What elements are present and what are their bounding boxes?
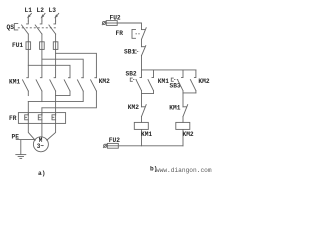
wire phase3 tee to KM2 pole3: [56, 50, 97, 78]
svg-text:QS: QS: [7, 24, 15, 31]
ground symbol: [16, 155, 26, 159]
terminal arrow L1: [27, 13, 31, 21]
wire phase1 tee to KM2 pole1: [28, 50, 70, 78]
terminal top: [102, 21, 106, 25]
KM2 main pole 1: [56, 78, 70, 96]
bottom rail wire: [118, 145, 183, 147]
QS pole 3: [49, 21, 56, 42]
wire phase2 down to FR: [41, 108, 43, 115]
SB2 NO contact: [136, 70, 142, 94]
coil KM1: [134, 122, 148, 145]
FR heater 1: [25, 113, 29, 123]
svg-text:3~: 3~: [37, 143, 45, 150]
QS handle bracket: [14, 24, 17, 30]
FR trip element: [132, 29, 136, 38]
wire phase3 down to FR: [55, 96, 57, 116]
KM2 NC interlock contact: [142, 105, 147, 123]
svg-text:FU1: FU1: [12, 42, 23, 49]
wire FR to motor right: [47, 123, 56, 140]
QS pole 2: [35, 21, 42, 42]
SB1 NC contact: [142, 46, 146, 70]
coil KM2: [176, 122, 190, 145]
svg-text:KM2: KM2: [99, 78, 110, 85]
wire phase2 tee to KM2 pole2: [42, 50, 83, 78]
wire FR to motor middle: [41, 123, 43, 136]
SB3 NO contact: [178, 70, 184, 93]
control bus wire: [142, 69, 196, 71]
KM2 aux NO contact: [190, 70, 196, 93]
svg-text:KM2: KM2: [183, 131, 194, 138]
fuse FU1 element 3: [53, 42, 58, 50]
svg-text:L2: L2: [37, 7, 45, 14]
wire phase1 down to FR: [27, 102, 29, 116]
svg-text:a): a): [38, 170, 45, 177]
terminal bottom: [103, 144, 107, 148]
FR trip dashed link: [136, 33, 141, 35]
svg-text:www.diangon.com: www.diangon.com: [156, 167, 212, 174]
wire fuse to rail: [117, 23, 141, 30]
QS linkage dashed: [18, 27, 56, 29]
rejoin wire branch2: [183, 93, 196, 107]
FR box: [18, 113, 65, 124]
svg-text:KM1: KM1: [158, 78, 169, 85]
fuse FU1 element 1: [26, 42, 31, 50]
PE wire: [16, 140, 35, 155]
SB1 actuator: [134, 50, 140, 53]
svg-text:KM1: KM1: [9, 79, 20, 86]
svg-text:KM2: KM2: [128, 104, 139, 111]
fuse FU1 element 2: [40, 42, 45, 50]
fuse FU2 top element: [106, 21, 118, 26]
svg-text:KM2: KM2: [198, 78, 209, 85]
KM1 main pole 3: [50, 53, 56, 95]
KM1 main pole 2: [36, 59, 42, 101]
svg-text:SB2: SB2: [126, 71, 137, 78]
QS pole 1: [22, 21, 29, 42]
svg-text:FR: FR: [9, 115, 17, 122]
svg-text:KM1: KM1: [169, 104, 180, 111]
KM1 aux NO contact: [148, 70, 154, 94]
svg-text:L1: L1: [25, 7, 33, 14]
terminal arrow L2: [41, 13, 45, 21]
svg-text:KM1: KM1: [141, 131, 152, 138]
SB3 actuator: [171, 78, 178, 81]
FR heater 2: [38, 113, 42, 123]
SB2 actuator: [130, 78, 136, 81]
FR heater 3: [52, 113, 56, 123]
KM1 main pole 1: [23, 65, 29, 95]
motor M 3~: [33, 137, 48, 152]
FR NC contact: [142, 28, 147, 47]
KM1 NC interlock contact: [183, 105, 188, 123]
svg-text:FR: FR: [116, 30, 124, 37]
svg-text:SB1: SB1: [124, 48, 135, 55]
KM2 main pole 3: [42, 78, 97, 108]
wire FR to motor left: [28, 123, 35, 140]
terminal arrow L3: [54, 13, 58, 21]
KM2 main pole 2: [28, 78, 83, 102]
fuse FU2 bottom element: [107, 143, 119, 148]
rejoin wire branch1: [142, 93, 154, 106]
svg-text:L3: L3: [49, 7, 57, 14]
